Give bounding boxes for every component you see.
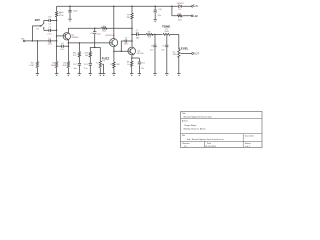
svg-text:Author: Author — [182, 119, 188, 122]
svg-text:Revision: Revision — [182, 143, 189, 145]
node in-sw — [32, 40, 34, 42]
node fat-top-bus — [56, 20, 58, 22]
node q2e — [113, 51, 115, 53]
wire S1 to input — [32, 26, 40, 41]
svg-text:100k: 100k — [164, 31, 168, 33]
resistor R5 — [101, 26, 107, 33]
ground C13 — [89, 74, 92, 76]
wire bus132 — [131, 6, 133, 47]
node q2e-121 — [121, 51, 123, 53]
capacitor C4 — [60, 43, 64, 51]
svg-text:2.2n: 2.2n — [47, 33, 51, 35]
node rail-C11 — [154, 6, 156, 8]
ground C9 — [165, 74, 168, 76]
svg-text:Drill - Band of Gypsies Fuzz c: Drill - Band of Gypsies Fuzz cb mod circ… — [187, 138, 224, 141]
node in-r3 — [37, 40, 39, 42]
transistor Q2 — [105, 35, 118, 47]
svg-text:1 of 1: 1 of 1 — [245, 146, 251, 148]
wire Q2 collector — [113, 6, 115, 38]
svg-text:BC108: BC108 — [108, 35, 115, 37]
ground R2 — [55, 74, 58, 76]
resistor R8 — [110, 62, 120, 74]
svg-text:LED: LED — [194, 16, 199, 18]
node tone-c8 — [154, 34, 156, 36]
ground R8 — [112, 74, 115, 76]
wire tone row — [132, 33, 162, 35]
label P1 — [103, 61, 106, 63]
ground P1 wiper — [102, 74, 105, 76]
node q1e-b — [68, 45, 70, 47]
capacitor C1 — [48, 38, 52, 46]
capacitor C6 — [124, 38, 128, 46]
wire VCC top rail — [57, 5, 192, 7]
pot P2 — [163, 33, 171, 36]
ground P3 — [177, 74, 180, 76]
svg-text:1.5M: 1.5M — [29, 65, 34, 67]
ground C10 — [68, 19, 71, 21]
capacitor C7 — [136, 30, 141, 39]
capacitor C2 — [48, 17, 52, 26]
svg-text:1k: 1k — [127, 64, 129, 66]
resistor R4 — [63, 61, 70, 73]
wire bus56 vertical — [56, 6, 58, 61]
wire Q1e to Q2 base — [68, 42, 112, 44]
node b132-wA — [131, 27, 133, 29]
switch S1 lever — [41, 24, 43, 26]
svg-text:2N2369: 2N2369 — [71, 37, 79, 39]
label LEVEL — [179, 46, 188, 50]
node b132-tone — [131, 34, 133, 36]
node c5-bridge — [94, 47, 96, 49]
title block — [181, 112, 262, 149]
resistor R2 — [51, 61, 59, 73]
svg-text:100n: 100n — [48, 44, 52, 46]
svg-text:File: File — [182, 135, 185, 137]
wire C4 row — [57, 45, 69, 47]
svg-text:47k: 47k — [73, 55, 76, 57]
diode D1 — [177, 3, 185, 11]
svg-text:2.2u: 2.2u — [60, 49, 64, 51]
svg-text:1k: 1k — [96, 62, 98, 64]
resistor R11 — [73, 43, 81, 63]
terminal LED — [191, 15, 198, 18]
capacitor C10 — [60, 6, 79, 18]
ground C8 — [153, 74, 156, 76]
resistor R9 — [127, 58, 133, 74]
node wA-c5 — [94, 27, 96, 29]
switch S1 pole — [36, 25, 41, 30]
ground C11 — [154, 20, 157, 22]
terminal IN — [21, 39, 25, 42]
svg-text:10n: 10n — [136, 32, 139, 34]
wire Q2 emitter — [113, 46, 115, 62]
wire LED branch — [172, 6, 191, 16]
capacitor C5 — [90, 28, 101, 47]
capacitor C12 — [73, 64, 81, 74]
svg-text:Document: Document — [245, 135, 254, 138]
ground R4 — [67, 74, 70, 76]
capacitor C3 — [47, 26, 51, 35]
capacitor C11 — [154, 6, 163, 19]
svg-text:Date: Date — [207, 142, 211, 145]
wire Q1 base — [57, 35, 66, 37]
pot P3 wiper — [180, 53, 192, 54]
wire Q2e-Q3b — [114, 50, 130, 52]
node q3e — [131, 57, 133, 59]
wire tone to level — [170, 34, 179, 49]
svg-text:LEVEL: LEVEL — [179, 46, 188, 50]
svg-text:Band of Gypsies Fuzz cb mod: Band of Gypsies Fuzz cb mod — [184, 116, 213, 118]
pot P1 wiper — [102, 64, 104, 74]
transistor Q1 — [63, 33, 79, 40]
resistor R3 — [29, 41, 39, 74]
svg-text:Mod by Chuck D. Bones: Mod by Chuck D. Bones — [184, 129, 206, 131]
resistor R7 — [126, 13, 133, 20]
terminal +9V — [192, 5, 199, 9]
svg-text:BC109: BC109 — [137, 53, 144, 55]
svg-text:10n: 10n — [48, 17, 51, 19]
wire fat top — [44, 19, 57, 21]
wire 121 up — [121, 41, 132, 51]
svg-text:FAT: FAT — [35, 18, 40, 22]
svg-text:Roger Mayer: Roger Mayer — [185, 124, 197, 127]
resistor R12 — [84, 51, 92, 63]
node c4-bus — [56, 45, 58, 47]
wire input — [25, 40, 57, 42]
svg-text:22u: 22u — [141, 68, 144, 70]
capacitor C9 — [161, 45, 168, 73]
ground C14 — [138, 74, 141, 76]
wire Q3 emitter — [132, 55, 133, 58]
wire Q1 emitter — [67, 40, 69, 62]
svg-text:OUT: OUT — [194, 54, 199, 56]
label P2 — [164, 29, 168, 33]
ground P1 — [99, 74, 102, 76]
svg-text:100k: 100k — [173, 54, 177, 56]
pot P1 — [96, 61, 102, 74]
pot P2 wiper — [166, 35, 167, 44]
wire bridge — [90, 47, 100, 61]
wire fat bottom — [44, 29, 57, 31]
svg-text:TONE: TONE — [162, 24, 170, 28]
pot P3 — [173, 49, 181, 73]
svg-text:4.7u: 4.7u — [84, 68, 88, 70]
label FUZZ — [102, 56, 110, 60]
wire Q1 collector — [67, 28, 69, 33]
node fat-bot-bus — [56, 30, 58, 32]
node w42-79 — [79, 42, 81, 44]
node q1base-bus — [56, 35, 58, 37]
wire Q1C to bus132 — [68, 27, 132, 29]
capacitor C13 — [84, 64, 92, 74]
node rail-R7 — [131, 6, 133, 8]
svg-text:22n: 22n — [161, 49, 164, 51]
label FAT — [35, 18, 40, 22]
svg-text:10k: 10k — [85, 55, 88, 57]
capacitor C14 — [132, 58, 146, 74]
label TONE — [162, 24, 170, 28]
svg-text:Title: Title — [182, 112, 186, 115]
svg-text:+9V: +9V — [194, 6, 199, 8]
ground R3 — [36, 74, 39, 76]
svg-text:19 Okt 2023: 19 Okt 2023 — [205, 145, 217, 148]
node b132-c6 — [131, 40, 133, 42]
svg-text:1N5817: 1N5817 — [177, 3, 185, 5]
node rail-C10 — [69, 6, 71, 8]
resistor R6 — [146, 31, 153, 38]
capacitor C8 — [150, 34, 156, 73]
ground C12 — [78, 74, 81, 76]
node q1e-a — [68, 42, 70, 44]
ground R9 — [130, 74, 133, 76]
resistor R10 — [177, 13, 183, 21]
svg-text:10u: 10u — [73, 68, 76, 70]
svg-text:100n: 100n — [124, 44, 128, 46]
switch S1 throws — [43, 20, 44, 30]
terminal OUT — [192, 53, 200, 56]
transistor Q3 — [128, 47, 144, 55]
resistor R1 — [55, 11, 64, 17]
node in-bus — [56, 40, 58, 42]
node rail-LED — [171, 6, 173, 8]
svg-text:Sheets: Sheets — [245, 142, 251, 145]
node rail-Q2C — [113, 6, 115, 8]
